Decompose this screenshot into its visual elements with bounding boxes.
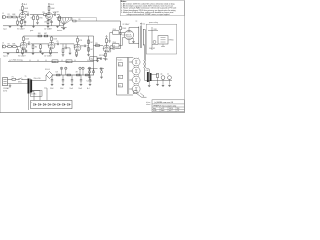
svg-text:4K7: 4K7	[76, 72, 79, 74]
svg-text:p.1/1: p.1/1	[161, 108, 165, 110]
svg-text:R2: R2	[8, 44, 10, 46]
svg-text:4K7: 4K7	[44, 33, 47, 35]
svg-text:1/2 12AX7: 1/2 12AX7	[44, 28, 52, 31]
svg-text:10K: 10K	[56, 72, 59, 74]
svg-text:D1-D4: D1-D4	[45, 69, 50, 71]
svg-text:V3: V3	[119, 85, 121, 87]
svg-text:dwg: dwg	[153, 108, 156, 110]
svg-text:T1: T1	[25, 76, 27, 78]
svg-text:power scaling: power scaling	[149, 22, 158, 24]
svg-text:T2: T2	[136, 21, 138, 23]
svg-text:16uF: 16uF	[70, 88, 74, 90]
svg-text:V1 12AX7: V1 12AX7	[17, 28, 25, 31]
svg-text:DH: DH	[177, 108, 179, 110]
svg-text:B+3: B+3	[51, 4, 54, 6]
svg-text:spk: spk	[160, 74, 162, 76]
svg-text:input: input	[3, 28, 7, 31]
svg-text:60 Hz: 60 Hz	[3, 91, 7, 93]
svg-text:J2: J2	[2, 42, 4, 44]
svg-text:06-10: 06-10	[169, 108, 173, 110]
svg-text:1K5: 1K5	[44, 22, 47, 24]
svg-text:all pins: all pins	[146, 102, 151, 104]
svg-text:gain: gain	[30, 30, 33, 32]
svg-text:1K5: 1K5	[18, 22, 21, 24]
svg-text:B+3: B+3	[24, 4, 27, 6]
svg-text:none: none	[161, 110, 165, 112]
svg-text:J1: J1	[2, 13, 4, 15]
svg-text:250-0-250: 250-0-250	[34, 78, 41, 80]
svg-text:120VAC: 120VAC	[3, 87, 10, 90]
svg-text:220K: 220K	[113, 42, 116, 44]
svg-text:16uF: 16uF	[79, 88, 83, 90]
svg-text:R9: R9	[79, 19, 81, 21]
svg-text:B+1: B+1	[87, 88, 90, 90]
svg-text:B+1: B+1	[143, 23, 146, 25]
svg-text:F1: F1	[12, 76, 14, 78]
svg-text:PL1: PL1	[67, 61, 70, 63]
svg-text:100K 1W: 100K 1W	[149, 48, 156, 50]
svg-text:220K: 220K	[113, 29, 116, 31]
svg-text:1/2 12AU7: 1/2 12AU7	[44, 55, 52, 58]
svg-text:32uF: 32uF	[50, 88, 54, 90]
svg-text:V2: V2	[119, 77, 121, 79]
svg-text:input 2: input 2	[3, 55, 8, 58]
svg-text:texture: texture	[57, 29, 62, 32]
svg-text:SW1: SW1	[18, 82, 22, 84]
svg-text:viewed: viewed	[146, 104, 151, 106]
svg-text:6.3V: 6.3V	[146, 70, 149, 72]
svg-text:V1: V1	[119, 64, 121, 66]
svg-text:1.0: 1.0	[177, 110, 179, 112]
svg-text:(c) AX84.com rev. 06: (c) AX84.com rev. 06	[155, 101, 174, 104]
svg-text:R5: R5	[43, 12, 45, 14]
svg-text:B+1: B+1	[105, 59, 108, 61]
svg-text:voltages measured with 120VAC: voltages measured with 120VAC mains, no …	[127, 13, 170, 16]
svg-text:V2 12AX7: V2 12AX7	[18, 55, 26, 58]
svg-text:scale: scale	[153, 110, 157, 112]
svg-text:R1: R1	[8, 14, 10, 16]
svg-text:IRF820: IRF820	[169, 40, 174, 42]
svg-text:32uF: 32uF	[60, 88, 64, 90]
